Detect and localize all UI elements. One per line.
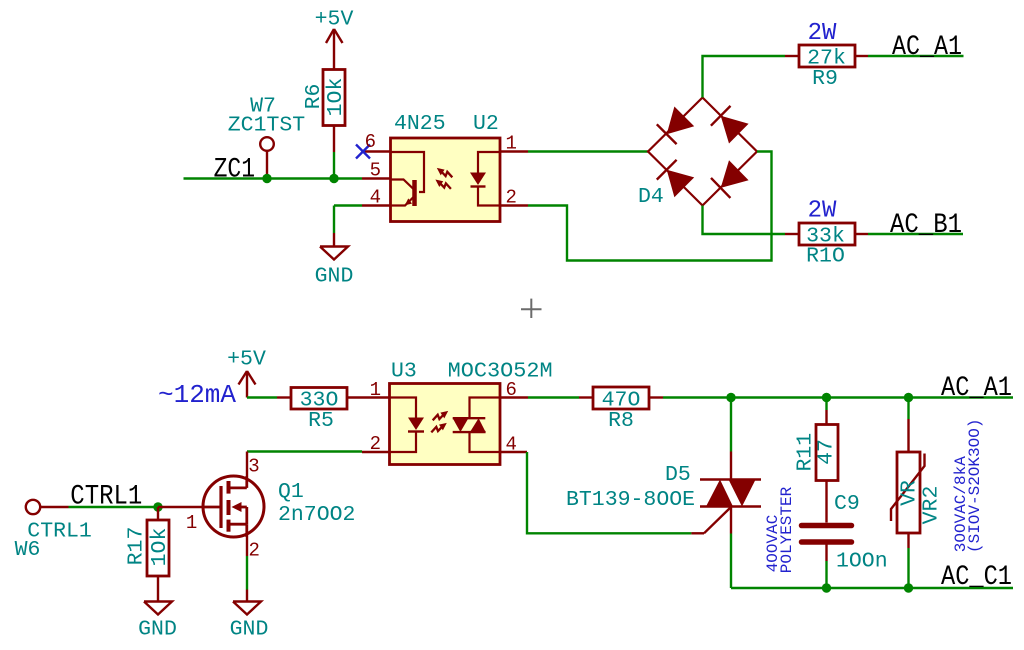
svg-text:R8: R8 xyxy=(608,409,634,433)
svg-text:U2: U2 xyxy=(473,112,499,136)
svg-text:4: 4 xyxy=(506,434,517,456)
svg-text:3: 3 xyxy=(248,456,259,478)
svg-text:C9: C9 xyxy=(834,492,860,516)
svg-text:5: 5 xyxy=(370,160,381,182)
svg-text:1OOn: 1OOn xyxy=(836,550,888,574)
svg-text:4: 4 xyxy=(370,187,381,209)
svg-text:1: 1 xyxy=(506,133,517,155)
svg-text:W6: W6 xyxy=(15,538,41,562)
svg-text:GND: GND xyxy=(138,618,177,642)
svg-text:R5: R5 xyxy=(308,409,334,433)
svg-text:R1O: R1O xyxy=(806,245,845,269)
svg-text:2: 2 xyxy=(506,187,517,209)
svg-text:Q1: Q1 xyxy=(278,480,304,504)
svg-text:6: 6 xyxy=(506,379,517,401)
svg-text:1Ok: 1Ok xyxy=(148,528,172,567)
svg-text:2: 2 xyxy=(249,540,260,562)
svg-text:1: 1 xyxy=(186,512,197,534)
svg-text:6: 6 xyxy=(365,131,376,153)
svg-text:U3: U3 xyxy=(391,359,417,383)
svg-text:+5V: +5V xyxy=(227,348,266,372)
svg-text:VR2: VR2 xyxy=(920,486,944,525)
svg-text:+5V: +5V xyxy=(315,8,354,32)
svg-text:ZC1: ZC1 xyxy=(214,155,256,186)
svg-text:2W: 2W xyxy=(808,198,837,225)
svg-text:AC_A1: AC_A1 xyxy=(941,373,1012,404)
svg-text:1: 1 xyxy=(370,379,381,401)
svg-text:GND: GND xyxy=(230,618,269,642)
svg-text:ZC1TST: ZC1TST xyxy=(228,114,306,138)
svg-text:1Ok: 1Ok xyxy=(324,78,348,117)
svg-text:(SIOV-S2OK3OO): (SIOV-S2OK3OO) xyxy=(966,419,984,553)
svg-text:R6: R6 xyxy=(302,84,326,110)
svg-text:R9: R9 xyxy=(812,67,838,91)
svg-text:D5: D5 xyxy=(665,463,691,487)
svg-text:POLYESTER: POLYESTER xyxy=(778,486,796,573)
svg-text:~12mA: ~12mA xyxy=(158,380,236,410)
svg-text:BT139-8OOE: BT139-8OOE xyxy=(566,488,695,512)
svg-text:2: 2 xyxy=(370,433,381,455)
svg-text:D4: D4 xyxy=(638,185,664,209)
svg-text:AC_C1: AC_C1 xyxy=(941,562,1012,593)
svg-text:VR: VR xyxy=(898,480,922,506)
svg-text:AC_A1: AC_A1 xyxy=(892,32,962,63)
svg-text:GND: GND xyxy=(315,265,354,289)
svg-text:4N25: 4N25 xyxy=(394,112,446,136)
svg-text:CTRL1: CTRL1 xyxy=(70,481,142,512)
svg-text:47: 47 xyxy=(815,439,839,465)
svg-text:2W: 2W xyxy=(808,20,837,47)
svg-text:AC_B1: AC_B1 xyxy=(890,210,962,241)
svg-text:2n7OO2: 2n7OO2 xyxy=(278,503,355,527)
svg-text:MOC3O52M: MOC3O52M xyxy=(448,359,553,383)
svg-text:R17: R17 xyxy=(124,527,148,566)
